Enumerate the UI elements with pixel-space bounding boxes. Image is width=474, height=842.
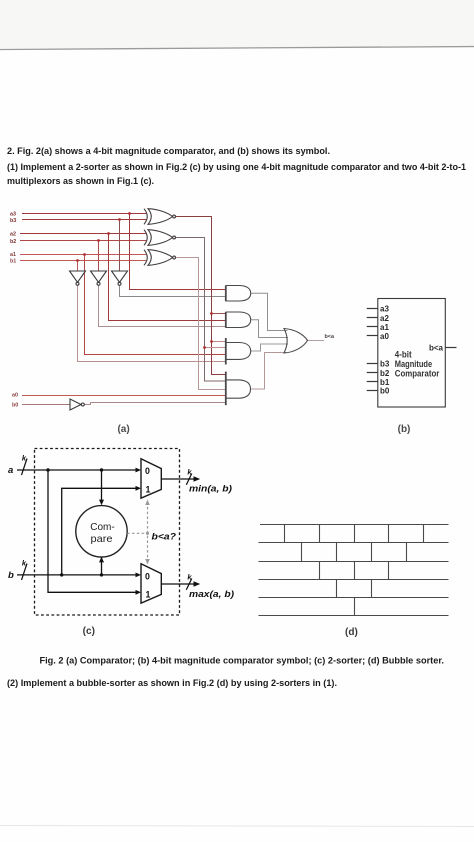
svg-text:(c): (c): [83, 626, 95, 637]
svg-text:a0: a0: [380, 332, 389, 341]
svg-text:(b): (b): [398, 424, 411, 435]
svg-text:4-bit: 4-bit: [395, 349, 412, 359]
pin a0 stub: [367, 335, 378, 337]
junction dot x2 to AND3: [203, 346, 206, 349]
bubble sorter rail 3: [259, 561, 449, 563]
wire a down to compare circle: [101, 470, 103, 500]
svg-text:0: 0: [145, 466, 150, 476]
wire x2 tap to AND3: [205, 347, 226, 349]
wire inverter N3 output to AND1: [120, 285, 226, 296]
pin b1 stub: [367, 381, 378, 383]
wire mux M2 output: [161, 583, 196, 585]
wire x3 tap to AND2: [212, 313, 226, 315]
junction dot b1: [76, 259, 79, 262]
arrowhead a into mux M1: [136, 468, 142, 473]
arrowhead a into mux M2: [136, 590, 142, 595]
wire b3: [22, 219, 146, 221]
and gate A4: [226, 372, 251, 406]
svg-text:(d): (d): [345, 627, 358, 638]
wire b up to compare circle: [101, 555, 103, 575]
bus slash b: [22, 564, 28, 581]
svg-text:b<a: b<a: [429, 344, 444, 353]
inverter N1 (b1): [70, 271, 86, 285]
junction dot b3: [118, 218, 121, 221]
svg-text:b0: b0: [380, 386, 390, 395]
pin a3 stub: [367, 308, 378, 310]
wire AND3 output to OR: [251, 344, 288, 351]
svg-text:b2: b2: [380, 369, 390, 378]
junction dot x3 to AND2: [210, 312, 213, 315]
junction dot a to compare: [100, 468, 103, 471]
junction dot b to mux M1: [60, 573, 63, 576]
junction dot a to mux M2: [46, 468, 49, 471]
wire a1 tap to AND3: [85, 255, 226, 355]
svg-text:1: 1: [146, 485, 151, 495]
svg-text:pare: pare: [91, 533, 113, 545]
wire a2: [20, 233, 146, 235]
wire b1 tap to inverter N1: [77, 261, 79, 272]
wire x3 tap to AND3: [212, 341, 226, 343]
svg-text:b3: b3: [380, 360, 390, 369]
junction dot a1: [83, 253, 86, 256]
arrowhead b into mux M2: [136, 573, 142, 578]
svg-text:b1: b1: [10, 259, 16, 265]
wire b2 tap to inverter N2: [98, 241, 100, 272]
sorter stage 4 connectors: [337, 580, 372, 598]
svg-text:b3: b3: [10, 218, 16, 224]
wire a1: [20, 254, 146, 256]
arrowhead select into mux M2: [145, 559, 150, 565]
inverter N2 (b2): [91, 271, 107, 285]
arrowhead select into mux M1: [145, 500, 150, 506]
and gate A2: [226, 312, 251, 328]
sorter stage 2 connectors: [302, 543, 407, 562]
svg-text:a: a: [8, 465, 13, 476]
pin b2 stub: [367, 372, 378, 374]
svg-text:Comparator: Comparator: [395, 369, 440, 379]
4-bit magnitude comparator symbol box U4: [378, 299, 446, 408]
xnor U2 (a2,b2): [144, 230, 176, 246]
svg-text:a3: a3: [380, 305, 389, 314]
svg-text:a2: a2: [380, 314, 389, 323]
dashed wire compare to select: [127, 532, 147, 534]
wire a input: [17, 469, 138, 471]
and gate A3: [226, 338, 251, 365]
arrowhead b into mux M1: [136, 486, 142, 491]
pin b0 stub: [367, 390, 378, 392]
svg-text:Fig. 2 (a) Comparator; (b) 4-b: Fig. 2 (a) Comparator; (b) 4-bit magnitu…: [40, 656, 444, 666]
bubble sorter rail 4: [259, 579, 449, 581]
wire b to mux M1 input 1: [62, 488, 138, 575]
svg-text:a2: a2: [10, 232, 16, 238]
xnor U1 (a3,b3): [144, 209, 176, 225]
pin a1 stub: [367, 326, 378, 328]
svg-text:multiplexors as shown in Fig.1: multiplexors as shown in Fig.1 (c).: [7, 176, 154, 187]
sorter stage 3 connectors: [320, 562, 389, 580]
junction dot b2: [97, 239, 100, 242]
arrowhead into compare bottom: [99, 557, 104, 563]
svg-text:b<a: b<a: [325, 334, 335, 340]
bubble sorter rail 6: [259, 615, 449, 617]
junction dot a3: [128, 212, 131, 215]
svg-text:1: 1: [146, 590, 151, 600]
svg-text:b: b: [8, 570, 14, 581]
pin b3 stub: [367, 363, 378, 365]
wire mux M1 output: [161, 478, 196, 480]
wire a3 tap to AND1: [130, 214, 226, 290]
wire x3 XNOR1 output: [176, 217, 226, 375]
arrowhead max output: [194, 581, 201, 587]
arrowhead min output: [194, 476, 201, 482]
mux M1 trapezoid: [141, 459, 161, 498]
and gate A1: [226, 285, 251, 301]
wire b0 to inverter N4: [22, 404, 70, 406]
wire a to mux M2 input 1: [48, 470, 138, 592]
svg-text:2. Fig. 2(a) shows a 4-bit mag: 2. Fig. 2(a) shows a 4-bit magnitude com…: [7, 146, 330, 157]
svg-text:a1: a1: [10, 252, 16, 258]
wire b3 tap to inverter N3: [119, 220, 121, 272]
svg-text:max(a, b): max(a, b): [189, 589, 234, 600]
svg-text:a1: a1: [380, 323, 389, 332]
wire b1: [20, 260, 146, 262]
wire AND1 output to OR: [251, 293, 288, 330]
junction dot x3 to AND3: [210, 340, 213, 343]
wire x1 XNOR3 output: [176, 258, 226, 390]
svg-text:a3: a3: [10, 212, 16, 218]
wire AND2 output to OR: [251, 320, 289, 338]
bus slash max: [186, 579, 192, 590]
svg-text:(a): (a): [117, 424, 129, 435]
svg-text:(1) Implement a 2-sorter as sh: (1) Implement a 2-sorter as shown in Fig…: [7, 162, 467, 173]
2-sorter dashed box: [35, 449, 180, 616]
junction dot select: [146, 532, 149, 535]
bubble sorter rail 5: [259, 597, 449, 599]
inverter N4 (b0): [70, 399, 84, 410]
wire a3: [22, 213, 146, 215]
wire x2 XNOR2 output: [176, 238, 226, 382]
wire a0 to AND4: [22, 395, 226, 397]
svg-text:b<a?: b<a?: [152, 532, 177, 543]
junction dot a2: [107, 232, 110, 235]
pin b<a output stub: [445, 347, 456, 349]
svg-text:a0: a0: [12, 393, 18, 399]
bus slash a: [22, 459, 28, 476]
wire inverter N1 output to AND3: [78, 285, 226, 361]
svg-text:0: 0: [145, 572, 150, 582]
wire OR output b<a: [308, 340, 325, 342]
wire b2: [20, 240, 146, 242]
junction dot b to compare: [100, 573, 103, 576]
or gate O1: [284, 329, 308, 354]
arrowhead into compare top: [99, 500, 104, 506]
wire AND4 output to OR: [251, 353, 287, 390]
bubble sorter rail 2: [259, 542, 449, 544]
svg-text:min(a, b): min(a, b): [189, 484, 232, 495]
sorter stage 5 connector: [354, 598, 356, 616]
svg-text:Com-: Com-: [90, 521, 115, 533]
bus slash min: [186, 474, 192, 485]
mux M2 trapezoid: [141, 564, 161, 603]
wire a2 tap to AND2: [109, 234, 226, 321]
svg-text:b2: b2: [10, 239, 16, 245]
compare circle: [76, 506, 127, 557]
wire inverter N4 output to AND4: [84, 403, 226, 405]
inverter N3 (b3): [112, 271, 128, 285]
sorter stage 1 connectors: [285, 525, 424, 543]
pin a2 stub: [367, 317, 378, 319]
xnor U3 (a1,b1): [144, 250, 176, 266]
wire b input: [17, 574, 138, 576]
bubble sorter rail 1: [260, 524, 449, 526]
wire inverter N2 output to AND2: [99, 285, 226, 326]
svg-text:b0: b0: [12, 403, 18, 409]
svg-text:(2) Implement a bubble-sorter: (2) Implement a bubble-sorter as shown i…: [7, 678, 337, 689]
dashed select wire b<a? vertical: [147, 502, 149, 562]
